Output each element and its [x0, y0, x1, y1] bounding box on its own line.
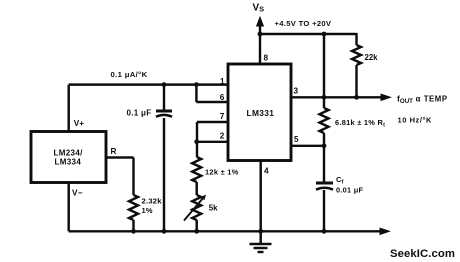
wire bottom ground rail [69, 230, 382, 232]
label fOUT TEMP [397, 94, 448, 106]
svg-text:7: 7 [220, 112, 225, 121]
svg-text:6: 6 [220, 93, 225, 102]
power supply arrow Vs [256, 16, 264, 34]
pin label 4 [264, 166, 269, 175]
label 12k 1% [205, 168, 239, 177]
label 22k [365, 53, 379, 62]
svg-text:LM234/: LM234/ [54, 149, 84, 158]
resistor R 2.32k 1% [129, 195, 138, 231]
label 0.1 uF [127, 109, 152, 118]
svg-text:VS: VS [253, 2, 265, 13]
svg-text:Cf: Cf [336, 175, 343, 186]
svg-text:0.01 μF: 0.01 μF [336, 186, 363, 195]
pin label V- [72, 188, 83, 197]
node junction 0.1uF cap [162, 82, 167, 87]
svg-text:4: 4 [264, 166, 269, 175]
svg-text:1%: 1% [142, 206, 153, 215]
node junction 0.1uF/rail [162, 229, 167, 234]
svg-text:0.1 μA/°K: 0.1 μA/°K [111, 70, 148, 79]
svg-text:6.81k ± 1% Rt: 6.81k ± 1% Rt [335, 118, 385, 129]
node junction fout/22k [354, 95, 359, 100]
pin label V+ [74, 119, 84, 128]
node junction 2.32k/rail [131, 229, 136, 234]
svg-text:12k ± 1%: 12k ± 1% [205, 168, 239, 177]
svg-text:V−: V− [72, 188, 83, 197]
node junction 5k/rail [194, 229, 199, 234]
wire top supply rail [260, 33, 357, 35]
wire V- vertical [67, 182, 69, 231]
svg-text:0.1 μF: 0.1 μF [127, 109, 152, 118]
svg-text:V+: V+ [74, 119, 84, 128]
svg-text:2: 2 [220, 132, 225, 141]
wire pin 5 stub [291, 145, 324, 147]
svg-text:R: R [111, 147, 117, 156]
wire V+ vertical [67, 85, 69, 132]
wire pin6 tie vertical [195, 85, 197, 102]
wire rail down to fout line [323, 34, 325, 108]
node junction pin2 tie [194, 139, 199, 144]
label 0.1 uA/K current source line [111, 70, 148, 79]
wire pin5 node to capacitor [323, 146, 325, 182]
resistor R 12k 1% [192, 157, 201, 195]
label 5k [209, 204, 218, 213]
svg-text:2.32k: 2.32k [142, 197, 163, 206]
pin label 8 [264, 54, 269, 63]
label 6.81k 1% Rt [335, 118, 385, 129]
label Cf [336, 175, 343, 186]
svg-text:8: 8 [264, 54, 269, 63]
output arrowhead fout [381, 94, 393, 102]
wire fout output line [291, 96, 383, 98]
ground symbol [250, 231, 272, 252]
supply rail label +4.5V TO +20V [275, 19, 332, 28]
label 10 Hz/K [398, 116, 433, 125]
wire pin 6 stub [196, 101, 228, 103]
ground rail arrowhead [380, 228, 392, 236]
pin label R [111, 147, 117, 156]
node junction Vs/pin8 [258, 32, 263, 37]
pin label 5 [294, 135, 299, 144]
pin label 3 [294, 87, 299, 96]
pin label 7 [220, 112, 225, 121]
svg-text:5k: 5k [209, 204, 218, 213]
wire current line pins 1 [69, 83, 228, 85]
svg-text:3: 3 [294, 87, 299, 96]
IC U1 LM331 [228, 64, 291, 161]
resistor R 22k [352, 45, 361, 97]
node junction Cf/rail [322, 229, 327, 234]
node junction pin1/pin6 tie [194, 82, 199, 87]
wire pin7 down to pin2 and 12k [196, 122, 198, 157]
label 0.01 uF [336, 186, 363, 195]
pin label 1 [220, 77, 225, 86]
wire pin 4 vertical [259, 161, 261, 232]
svg-text:22k: 22k [365, 53, 379, 62]
node junction pin5/Ct [322, 143, 327, 148]
capacitor Cf 0.01uF [316, 183, 333, 231]
label 1% [142, 206, 153, 215]
IC U2 LM234/LM334 [31, 132, 106, 183]
pin label 6 [220, 93, 225, 102]
capacitor C 0.1uF [156, 85, 172, 232]
potentiometer 5k [184, 195, 206, 232]
node junction fout/Rt [322, 95, 327, 100]
node Vs label [253, 2, 265, 13]
wire pin 7 stub [197, 121, 228, 123]
node junction pin4/rail [258, 229, 263, 234]
svg-text:5: 5 [294, 135, 299, 144]
wire pin 8 to rail [259, 34, 261, 64]
svg-text:fOUT α TEMP: fOUT α TEMP [397, 94, 448, 106]
node junction rail/Rt branch [322, 32, 327, 37]
svg-text:LM331: LM331 [247, 108, 275, 118]
wire 22k top [355, 33, 357, 45]
wire pin 2 stub [197, 141, 228, 143]
svg-text:+4.5V TO +20V: +4.5V TO +20V [275, 19, 332, 28]
svg-text:SeekIC.com: SeekIC.com [390, 248, 455, 260]
resistor Rt 6.81k [320, 108, 329, 146]
pin label 2 [220, 132, 225, 141]
label 2.32k [142, 197, 163, 206]
svg-text:LM334: LM334 [55, 158, 82, 167]
svg-text:10 Hz/°K: 10 Hz/°K [398, 116, 433, 125]
wire R stub [106, 158, 134, 196]
